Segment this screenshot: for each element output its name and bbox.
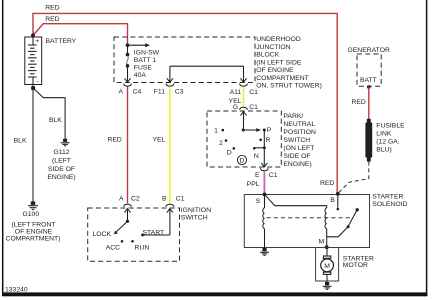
wire BLK battery negative to G100 <box>32 88 34 202</box>
svg-text:40A: 40A <box>134 72 147 79</box>
fuse F11 40A <box>125 45 131 82</box>
svg-text:C4: C4 <box>133 88 142 95</box>
svg-text:B: B <box>330 197 335 204</box>
svg-text:YEL: YEL <box>152 137 165 144</box>
svg-text:C1: C1 <box>249 104 258 111</box>
wire RED generator to fusible link <box>368 87 370 119</box>
solenoid plunger linkage (dashed) <box>267 217 351 219</box>
svg-text:D: D <box>240 157 245 164</box>
wire BLK battery negative to G112 <box>33 88 65 139</box>
label UNDERHOOD JUNCTION BLOCK (IN LEFT SIDE OF ENGINE COMPARTMENT ON, STRUT TOWER) <box>256 36 322 89</box>
circled D drive indicator <box>237 155 246 164</box>
ground G100 <box>28 201 38 209</box>
svg-text:BATT 1: BATT 1 <box>134 57 157 64</box>
solenoid B contact <box>337 194 340 210</box>
svg-text:COMPARTMENT: COMPARTMENT <box>256 75 309 82</box>
starter solenoid box <box>244 195 369 248</box>
svg-text:BATT: BATT <box>360 77 377 84</box>
svg-text:G: G <box>233 104 238 111</box>
label PARK/NEUTRAL POSITION SWITCH (ON LEFT SIDE OF ENGINE) <box>283 113 316 168</box>
wire YEL A11 to park/neutral switch <box>243 87 245 107</box>
svg-text:A11: A11 <box>230 89 242 96</box>
connector C3 pin F11 <box>166 84 174 87</box>
ground G112 <box>61 139 70 146</box>
underhood junction block box <box>114 37 255 83</box>
svg-text:NEUTRAL: NEUTRAL <box>283 121 315 128</box>
node battery positive junction <box>31 33 35 37</box>
label G100 (LEFT FRONT OF ENGINE COMPARTMENT) <box>6 211 61 242</box>
svg-text:G112: G112 <box>53 149 69 156</box>
svg-text:POSITION: POSITION <box>283 129 316 136</box>
node generator BATT terminal <box>367 85 371 89</box>
svg-text:C2: C2 <box>131 196 140 203</box>
solenoid pull-in winding <box>325 208 327 247</box>
starter motor M1 <box>321 248 334 283</box>
svg-text:SWITCH: SWITCH <box>181 215 208 222</box>
svg-text:SIDE OF: SIDE OF <box>283 153 310 160</box>
park/neutral switch internals <box>222 112 268 167</box>
wire RED battery feed rail 1 (battery + to starter solenoid B) <box>33 13 337 193</box>
svg-text:D: D <box>227 150 232 157</box>
svg-text:SOLENOID: SOLENOID <box>372 201 407 208</box>
svg-text:1: 1 <box>214 128 218 135</box>
svg-text:IGNITION: IGNITION <box>181 207 211 214</box>
svg-text:ENGINE): ENGINE) <box>283 161 311 168</box>
ground solenoid winding <box>260 248 269 255</box>
label IGNITION SWITCH <box>181 207 211 222</box>
node junction block feed <box>126 43 130 47</box>
svg-text:RED: RED <box>320 180 334 187</box>
svg-text:(LEFT: (LEFT <box>52 157 71 164</box>
svg-text:LINK: LINK <box>376 130 392 137</box>
svg-text:M: M <box>319 239 325 246</box>
svg-text:RED: RED <box>107 137 121 144</box>
svg-text:RED: RED <box>45 5 59 12</box>
svg-text:BLOCK: BLOCK <box>256 52 280 59</box>
svg-text:133240: 133240 <box>5 287 28 294</box>
svg-text:(12 GA.: (12 GA. <box>376 138 400 145</box>
wire RED C4 to ignition switch <box>127 87 129 204</box>
svg-text:RED: RED <box>351 99 365 106</box>
fusible link (12 GA BLU) <box>365 119 372 162</box>
svg-text:BLU): BLU) <box>376 146 392 153</box>
ground starter motor <box>323 282 332 289</box>
node S terminal <box>263 193 267 197</box>
svg-text:C1: C1 <box>249 89 258 96</box>
svg-text:IGN-SW: IGN-SW <box>134 50 160 57</box>
svg-text:(IN LEFT SIDE: (IN LEFT SIDE <box>256 59 302 66</box>
svg-text:C1: C1 <box>269 172 278 179</box>
starter motor box <box>316 248 339 282</box>
svg-text:(LEFT FRONT: (LEFT FRONT <box>11 221 55 228</box>
svg-text:A: A <box>118 88 123 95</box>
arrow IGN-SW feed <box>128 43 151 47</box>
svg-text:START: START <box>143 229 165 236</box>
connector C4 pin A <box>124 84 132 87</box>
junction block internal bus F11 to A11 <box>167 66 247 82</box>
ignition switch box <box>88 208 180 261</box>
svg-text:F11: F11 <box>154 88 165 95</box>
label F11 C3 <box>154 88 184 95</box>
svg-text:GENERATOR: GENERATOR <box>347 47 390 54</box>
wire RED battery feed rail 2 (battery + to underhood junction block) <box>33 24 128 46</box>
svg-text:PPL: PPL <box>247 181 260 188</box>
svg-text:B: B <box>162 196 167 203</box>
svg-text:G100: G100 <box>22 211 39 218</box>
label G112 (LEFT SIDE OF ENGINE) <box>47 149 75 181</box>
label G C1 <box>233 104 258 111</box>
svg-text:S: S <box>256 198 261 205</box>
node M terminal <box>325 245 329 249</box>
svg-text:OF ENGINE: OF ENGINE <box>15 229 53 236</box>
svg-text:R: R <box>266 137 271 144</box>
svg-text:(ON LEFT: (ON LEFT <box>283 145 314 152</box>
node B terminal <box>336 192 340 196</box>
svg-text:ENGINE): ENGINE) <box>47 174 75 181</box>
page frame <box>2 0 4 296</box>
connector C2 pin A <box>124 204 132 207</box>
svg-text:PARK/: PARK/ <box>283 113 303 120</box>
wire YEL C3 to ignition switch <box>169 87 171 204</box>
wire PPL E to starter solenoid S <box>263 172 265 194</box>
svg-text:OF ENGINE: OF ENGINE <box>256 67 294 74</box>
connector C1 pin A11 <box>240 84 248 87</box>
solenoid pull-in winding feed <box>265 194 327 208</box>
label E C1 <box>255 172 278 179</box>
svg-text:-: - <box>36 78 38 85</box>
solenoid moving contact <box>327 208 359 237</box>
label A C2 <box>119 196 140 203</box>
connector C1 pin B <box>166 204 174 207</box>
svg-text:COMPARTMENT): COMPARTMENT) <box>6 236 61 243</box>
wire fusible link to solenoid B (dashed) <box>338 162 369 194</box>
connector C1 pin G <box>240 107 248 110</box>
park/neutral position switch box <box>207 111 281 167</box>
ignition switch internals <box>114 209 173 243</box>
svg-text:SWITCH: SWITCH <box>283 137 310 144</box>
svg-text:2: 2 <box>219 140 223 147</box>
svg-text:A: A <box>119 196 124 203</box>
svg-text:STARTER: STARTER <box>372 194 403 201</box>
label FUSIBLE LINK (12 GA. BLU) <box>376 122 405 153</box>
solenoid hold-in winding <box>263 194 265 249</box>
svg-text:M: M <box>324 263 330 270</box>
svg-text:UNDERHOOD: UNDERHOOD <box>256 36 301 43</box>
svg-text:RED: RED <box>45 16 59 23</box>
generator box <box>357 54 381 86</box>
battery <box>25 36 42 89</box>
label STARTER SOLENOID <box>372 194 407 209</box>
svg-text:BATTERY: BATTERY <box>46 38 77 45</box>
svg-text:RUN: RUN <box>135 244 150 251</box>
svg-text:FUSIBLE: FUSIBLE <box>376 122 405 129</box>
node battery negative junction <box>31 86 35 90</box>
svg-text:ACC: ACC <box>106 244 120 251</box>
svg-text:E: E <box>255 172 260 179</box>
svg-text:N: N <box>254 153 259 160</box>
label B C1 <box>162 196 185 203</box>
connector C1 pin E <box>260 168 268 171</box>
label A11 C1 <box>230 89 259 96</box>
svg-text:P: P <box>267 127 272 134</box>
label A C4 <box>118 88 141 95</box>
svg-text:+: + <box>35 38 39 45</box>
svg-text:JUNCTION: JUNCTION <box>256 44 290 51</box>
svg-text:ON, STRUT TOWER): ON, STRUT TOWER) <box>256 83 322 90</box>
svg-text:C3: C3 <box>175 88 184 95</box>
svg-text:BLK: BLK <box>14 138 27 145</box>
svg-text:MOTOR: MOTOR <box>343 262 368 269</box>
svg-text:BLK: BLK <box>49 117 62 124</box>
svg-text:C1: C1 <box>176 196 185 203</box>
svg-text:LOCK: LOCK <box>92 231 111 238</box>
svg-text:FUSE: FUSE <box>134 65 153 72</box>
svg-text:SIDE OF: SIDE OF <box>48 166 75 173</box>
label IGN-SW BATT 1 FUSE 40A <box>134 50 160 80</box>
label STARTER MOTOR <box>343 256 374 270</box>
